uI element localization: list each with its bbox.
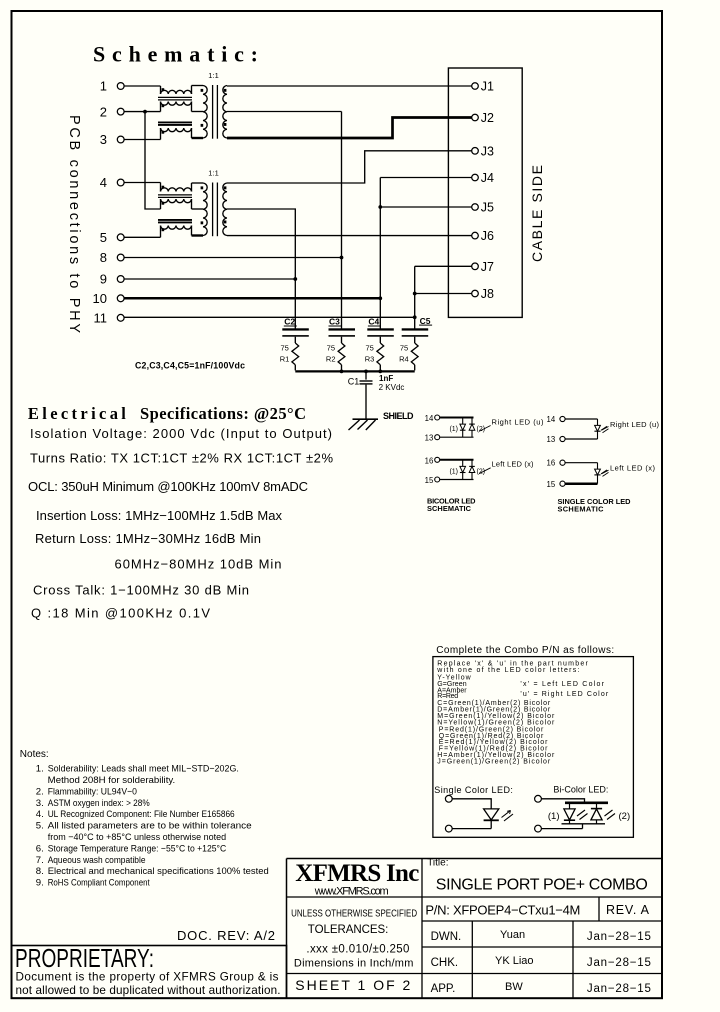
phase dots T1 secondary <box>224 89 227 126</box>
svg-text:9: 9 <box>100 272 107 287</box>
svg-text:REV. A: REV. A <box>606 903 650 917</box>
phase dot winding C T2 <box>162 228 165 231</box>
svg-text:2.: 2. <box>36 786 44 797</box>
svg-text:SHEET 1 OF 2: SHEET 1 OF 2 <box>295 977 410 993</box>
wire pin10 to C4 net <box>124 297 380 300</box>
svg-text:SCHEMATIC: SCHEMATIC <box>427 504 472 513</box>
svg-text:16: 16 <box>425 456 434 465</box>
title block grid <box>287 859 663 999</box>
svg-text:16: 16 <box>547 459 556 468</box>
node pin11-C5 junction <box>413 315 417 319</box>
svg-text:R1: R1 <box>280 355 290 364</box>
node pin10-C4 junction <box>378 296 382 300</box>
phase dot winding B T1 <box>162 104 165 107</box>
svg-text:C2,C3,C4,C5=1nF/100Vdc: C2,C3,C4,C5=1nF/100Vdc <box>135 360 245 370</box>
notes text <box>36 764 269 889</box>
transformer T2 choke winding A <box>161 183 192 192</box>
transformer T2 primary winding <box>192 183 208 236</box>
svg-text:8.: 8. <box>36 866 44 877</box>
wire T2 secondary bottom to J6 <box>227 235 472 237</box>
svg-text:75: 75 <box>400 344 408 353</box>
svg-text:APP.: APP. <box>431 983 456 995</box>
svg-text:www.XFMRS.com: www.XFMRS.com <box>314 885 389 897</box>
svg-text:13: 13 <box>425 434 434 443</box>
svg-text:J2: J2 <box>481 111 494 125</box>
label PCB connections to PHY <box>66 115 82 333</box>
combo heading <box>436 645 614 656</box>
svg-text:Right LED (u): Right LED (u) <box>492 417 545 426</box>
pin 2 terminal <box>100 104 124 119</box>
node pin2 junction <box>143 110 147 114</box>
single color LED left 16-15 <box>547 459 656 489</box>
svg-text:15: 15 <box>425 476 434 485</box>
terminal J7 <box>472 260 494 274</box>
node rail junction C1 <box>364 370 368 374</box>
svg-text:C2: C2 <box>284 317 295 327</box>
tolerances text <box>291 909 417 970</box>
bicolor LED right 14-13 <box>425 414 544 443</box>
node pin9-C2 junction <box>293 277 297 281</box>
node J8-C5 junction <box>413 292 417 296</box>
phase dot winding C T1 <box>162 131 165 134</box>
svg-text:Aqueous wash compatible: Aqueous wash compatible <box>48 855 146 866</box>
wire J7 to C5 net <box>415 265 472 267</box>
part number text <box>425 903 649 918</box>
svg-text:11: 11 <box>94 311 108 326</box>
wire T2 secondary center tap to C2 <box>227 209 295 330</box>
svg-text:Dimensions in Inch/mm: Dimensions in Inch/mm <box>294 958 414 970</box>
transformer T2 core <box>213 183 218 237</box>
svg-text:9.: 9. <box>36 878 44 889</box>
svg-text:SCHEMATIC: SCHEMATIC <box>558 505 605 514</box>
svg-text:CABLE SIDE: CABLE SIDE <box>529 165 545 262</box>
core lines T2 upper <box>158 195 192 198</box>
svg-text:1.: 1. <box>36 764 44 775</box>
transformer T1 secondary winding <box>223 86 227 139</box>
svg-text:J6: J6 <box>481 229 494 243</box>
svg-text:J3: J3 <box>481 144 494 158</box>
svg-text:(1): (1) <box>548 811 560 822</box>
wire pin5 to T2 <box>124 236 160 238</box>
wire J8 to C5 net <box>415 293 472 295</box>
svg-text:.xxx ±0.010/±0.250: .xxx ±0.010/±0.250 <box>306 944 409 956</box>
svg-text:75: 75 <box>327 344 335 353</box>
label SHIELD <box>383 411 414 421</box>
svg-text:N=Yellow(1)/Green(2) Bicolor: N=Yellow(1)/Green(2) Bicolor <box>437 719 555 726</box>
svg-text:TOLERANCES:: TOLERANCES: <box>308 924 389 936</box>
node rail junction C4 <box>378 370 382 374</box>
svg-text:3: 3 <box>100 132 107 147</box>
svg-text:Complete the Combo P/N as foll: Complete the Combo P/N as follows: <box>436 645 614 656</box>
pin 1 terminal <box>100 79 124 94</box>
svg-text:R=Red: R=Red <box>437 693 458 700</box>
wire T1 secondary center tap to C3 <box>227 111 342 113</box>
wire pin1 to T1 <box>124 85 160 87</box>
pin 4 terminal <box>100 175 124 190</box>
svg-text:Yuan: Yuan <box>500 929 525 941</box>
svg-text:Jan−28−15: Jan−28−15 <box>587 957 651 969</box>
transformer T1 core <box>213 85 218 139</box>
svg-text:6.: 6. <box>36 843 44 854</box>
svg-text:1:1: 1:1 <box>208 169 219 178</box>
wire C4 net vertical <box>379 178 381 331</box>
terminal J8 <box>472 287 494 301</box>
capacitor value note <box>135 360 245 370</box>
svg-text:SINGLE PORT POE+ COMBO: SINGLE PORT POE+ COMBO <box>436 877 648 894</box>
title text <box>427 858 648 894</box>
wire T2 secondary top to J3 <box>227 151 472 183</box>
svg-text:J7: J7 <box>481 260 494 274</box>
phase dot winding A T1 <box>162 88 165 91</box>
svg-text:60MHz−80MHz 10dB Min: 60MHz−80MHz 10dB Min <box>115 556 282 571</box>
svg-text:15: 15 <box>547 480 556 489</box>
svg-text:Right LED (u): Right LED (u) <box>610 420 660 429</box>
svg-text:J5: J5 <box>481 201 494 215</box>
wire pin2 to T1 center <box>124 111 160 113</box>
svg-text:'x' = Left LED Color: 'x' = Left LED Color <box>520 681 604 688</box>
svg-text:Method 208H for solderability.: Method 208H for solderability. <box>48 775 176 786</box>
wire T1 secondary bottom to J2 <box>227 118 472 139</box>
svg-text:(2): (2) <box>477 426 486 433</box>
heading Notes <box>20 749 49 760</box>
svg-text:(2): (2) <box>619 811 631 822</box>
svg-text:5.: 5. <box>36 821 44 832</box>
phase dot winding A T2 <box>162 186 165 189</box>
proprietary box <box>12 946 287 999</box>
svg-text:RoHS Compliant Component: RoHS Compliant Component <box>48 878 150 889</box>
wire J4 to C4 net <box>380 177 471 179</box>
label SINGLE COLOR LED SCHEMATIC <box>558 497 632 513</box>
svg-text:Q :18 Min @100KHz 0.1V: Q :18 Min @100KHz 0.1V <box>31 605 210 620</box>
svg-text:Insertion Loss: 1MHz−100MHz 1.: Insertion Loss: 1MHz−100MHz 1.5dB Max <box>36 508 283 523</box>
resistor R2 <box>326 343 345 370</box>
node J5-C4 junction <box>378 205 382 209</box>
electrical specification text <box>28 426 333 620</box>
svg-text:10: 10 <box>93 291 107 306</box>
pin 8 terminal <box>100 250 124 265</box>
capacitor C2 <box>282 317 309 343</box>
sheet text <box>295 977 410 993</box>
svg-text:DOC. REV: A/2: DOC. REV: A/2 <box>177 928 275 943</box>
svg-text:Document is the property of XF: Document is the property of XFMRS Group … <box>16 971 279 984</box>
svg-text:from −40°C to +85°C unless oth: from −40°C to +85°C unless otherwise not… <box>48 832 227 843</box>
svg-text:Solderability: Leads shall mee: Solderability: Leads shall meet MIL−STD−… <box>48 764 239 775</box>
svg-text:14: 14 <box>547 415 556 424</box>
transformer T1 choke winding B <box>161 102 192 112</box>
logo XFMRS Inc <box>295 860 419 897</box>
heading Electrical Specifications <box>28 404 306 423</box>
label BICOLOR LED SCHEMATIC <box>427 497 476 513</box>
wire pin2 down to T2 center <box>145 112 161 209</box>
capacitor C4 <box>367 317 394 343</box>
phase dots T2 primary <box>201 186 204 224</box>
combo box <box>433 657 634 838</box>
svg-text:3.: 3. <box>36 798 44 809</box>
wire T1 secondary top to J1 <box>227 85 472 87</box>
svg-text:1: 1 <box>100 79 107 94</box>
pin 11 terminal <box>94 311 125 326</box>
svg-text:UL Recognized Component: File: UL Recognized Component: File Number E16… <box>48 809 235 820</box>
heading Schematic <box>93 42 258 67</box>
label CABLE SIDE <box>529 165 545 262</box>
svg-text:with one of the LED color lett: with one of the LED color letters: <box>436 667 579 674</box>
approval rows <box>431 929 651 995</box>
svg-text:BW: BW <box>505 981 523 993</box>
terminal J5 <box>472 201 494 215</box>
single color LED right 14-13 <box>547 415 660 444</box>
wire pin9 to C2 net <box>124 278 295 280</box>
svg-text:4.: 4. <box>36 809 44 820</box>
svg-text:Bi-Color LED:: Bi-Color LED: <box>553 785 608 795</box>
svg-text:Return Loss: 1MHz−30MHz 16d: Return Loss: 1MHz−30MHz 16dB Min <box>35 531 261 546</box>
svg-text:XFMRS Inc: XFMRS Inc <box>295 860 419 887</box>
svg-text:(1): (1) <box>449 469 458 476</box>
svg-text:7.: 7. <box>36 855 44 866</box>
svg-text:75: 75 <box>365 344 373 353</box>
svg-text:Electrical and mechanical spec: Electrical and mechanical specifications… <box>48 866 269 877</box>
wire pin4 to T2 <box>124 182 160 184</box>
terminal J6 <box>472 229 494 243</box>
svg-text:Jan−28−15: Jan−28−15 <box>587 983 651 995</box>
wire J5 to C4 net <box>380 206 471 208</box>
svg-text:2 KVdc: 2 KVdc <box>379 383 405 392</box>
svg-text:YK Liao: YK Liao <box>495 955 534 967</box>
resistor R1 <box>280 343 299 370</box>
svg-text:ASTM oxygen index: > 28%: ASTM oxygen index: > 28% <box>48 798 150 809</box>
wire C5 net vertical <box>414 266 416 329</box>
svg-text:Left LED (x): Left LED (x) <box>610 464 656 473</box>
svg-text:UNLESS OTHERWISE SPECIFIED: UNLESS OTHERWISE SPECIFIED <box>291 909 417 920</box>
svg-text:Title:: Title: <box>427 858 448 869</box>
svg-text:(2): (2) <box>477 469 486 476</box>
svg-text:2: 2 <box>100 104 107 119</box>
core lines T1 lower <box>158 122 192 125</box>
transformer T1 choke winding C <box>161 128 192 140</box>
transformer T2 choke winding B <box>161 199 192 209</box>
svg-text:14: 14 <box>425 414 434 423</box>
transformer T1 primary winding <box>192 86 208 139</box>
svg-text:Single Color LED:: Single Color LED: <box>434 785 513 795</box>
svg-text:PCB connections to PHY: PCB connections to PHY <box>66 115 82 333</box>
svg-text:R4: R4 <box>399 355 409 364</box>
svg-text:DWN.: DWN. <box>431 931 462 943</box>
terminal J4 <box>472 171 494 185</box>
transformer T1 choke winding A <box>161 86 192 95</box>
svg-text:13: 13 <box>547 435 556 444</box>
connector box <box>448 68 522 317</box>
svg-text:'u' = Right LED Color: 'u' = Right LED Color <box>520 691 608 698</box>
wire pin11 to C5 net <box>124 316 415 318</box>
svg-text:P/N: XFPOEP4−CTxu1−4M: P/N: XFPOEP4−CTxu1−4M <box>425 903 580 918</box>
svg-text:J=Green(1)/Green(2) Bicolor: J=Green(1)/Green(2) Bicolor <box>437 758 551 765</box>
wire termination rail <box>295 370 414 372</box>
svg-text:(1): (1) <box>449 426 458 433</box>
svg-text:Notes:: Notes: <box>20 749 49 760</box>
transformer T2 choke winding C <box>161 226 192 238</box>
svg-text:75: 75 <box>280 344 288 353</box>
svg-text:J4: J4 <box>481 171 494 185</box>
svg-text:Flammability: UL94V−0: Flammability: UL94V−0 <box>48 786 137 797</box>
svg-text:Left LED (x): Left LED (x) <box>492 460 535 469</box>
svg-text:4: 4 <box>100 175 107 190</box>
svg-text:Schematic:: Schematic: <box>93 42 258 67</box>
core lines T1 upper <box>158 97 192 100</box>
wire pin8 to C3 net <box>124 257 341 259</box>
terminal J1 <box>472 80 494 94</box>
svg-text:R2: R2 <box>326 355 336 364</box>
terminal J3 <box>472 144 494 158</box>
svg-text:8: 8 <box>100 250 107 265</box>
svg-text:C5: C5 <box>420 316 431 326</box>
svg-text:PROPRIETARY:: PROPRIETARY: <box>15 943 154 973</box>
svg-text:Storage Temperature Range: −55: Storage Temperature Range: −55°C to +125… <box>48 843 227 854</box>
capacitor C1 <box>348 371 405 419</box>
svg-text:not allowed to be duplicated w: not allowed to be duplicated without aut… <box>16 984 281 997</box>
phase dots T1 primary <box>201 89 204 127</box>
node pin8-C3 junction <box>340 256 344 260</box>
bicolor LED pictogram <box>535 795 631 832</box>
bicolor LED left 16-15 <box>425 456 534 485</box>
proprietary text <box>15 943 281 997</box>
label Bi-Color LED <box>553 785 608 795</box>
svg-text:Cross Talk: 1−100MHz 30 dB Mi: Cross Talk: 1−100MHz 30 dB Min <box>33 583 249 598</box>
svg-text:All listed parameters are to b: All listed parameters are to be within t… <box>48 821 252 832</box>
core lines T2 lower <box>158 220 192 223</box>
single color LED pictogram <box>445 795 513 832</box>
svg-text:R3: R3 <box>365 355 375 364</box>
transformer T1 ratio label 1:1 <box>208 71 219 80</box>
svg-text:OCL: 350uH Minimum @100KHz 100: OCL: 350uH Minimum @100KHz 100mV 8mADC <box>28 479 308 494</box>
svg-text:1nF: 1nF <box>379 374 393 383</box>
node rail junction C3 <box>340 370 344 374</box>
svg-text:J8: J8 <box>481 287 494 301</box>
wire C3 net vertical <box>341 112 343 331</box>
combo replacement text <box>436 661 609 766</box>
svg-text:C3: C3 <box>329 317 340 327</box>
svg-text:Jan−28−15: Jan−28−15 <box>587 931 651 943</box>
svg-text:Specifications: @25°C: Specifications: @25°C <box>140 404 306 423</box>
capacitor C3 <box>329 317 356 343</box>
pin 9 terminal <box>100 272 124 287</box>
wire pin3 to T1 <box>124 139 160 141</box>
transformer T2 secondary winding <box>223 183 227 236</box>
svg-text:Isolation Voltage: 2000 Vdc (: Isolation Voltage: 2000 Vdc (Input to Ou… <box>30 426 332 441</box>
pin 5 terminal <box>100 230 124 245</box>
svg-text:5: 5 <box>100 230 107 245</box>
svg-text:Turns Ratio: TX 1CT:1CT ±2% RX: Turns Ratio: TX 1CT:1CT ±2% RX 1CT:1CT ±… <box>30 451 333 466</box>
svg-text:C4: C4 <box>368 317 379 327</box>
svg-text:CHK.: CHK. <box>431 957 458 969</box>
pin 10 terminal <box>93 291 125 306</box>
phase dots T2 secondary <box>224 186 227 223</box>
terminal J2 <box>472 111 494 125</box>
svg-text:SHIELD: SHIELD <box>383 411 414 421</box>
resistor R4 <box>399 343 418 370</box>
resistor R3 <box>365 343 384 370</box>
capacitor C5 <box>402 316 432 343</box>
svg-text:1:1: 1:1 <box>208 71 219 80</box>
ground shield symbol <box>349 419 379 430</box>
transformer T2 ratio label 1:1 <box>208 169 219 178</box>
phase dot winding B T2 <box>162 202 165 205</box>
svg-text:C1: C1 <box>348 377 360 387</box>
svg-text:J1: J1 <box>481 80 494 94</box>
label DOC REV <box>177 928 275 943</box>
label Single Color LED <box>434 785 513 795</box>
pin 3 terminal <box>100 132 124 147</box>
